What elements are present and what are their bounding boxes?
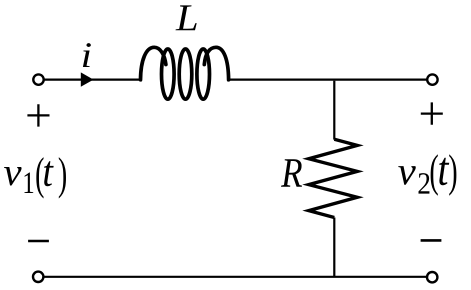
wire top-right segment bbox=[229, 78, 428, 80]
terminal top-left bbox=[33, 74, 43, 84]
label v1(t) bbox=[4, 157, 66, 198]
resistor R top lead wire bbox=[333, 81, 335, 140]
terminal bottom-left bbox=[33, 272, 43, 282]
inductor L loop 2 bbox=[179, 49, 192, 99]
wire top-left segment bbox=[44, 78, 141, 80]
minus sign left bbox=[28, 240, 49, 243]
minus sign right bbox=[421, 239, 442, 242]
wire bottom segment bbox=[43, 276, 427, 278]
inductor L right hump bbox=[204, 47, 228, 80]
label L bbox=[176, 5, 197, 30]
inductor L left hump bbox=[141, 47, 166, 80]
terminal bottom-right bbox=[427, 272, 437, 282]
inductor L loop 3 bbox=[197, 49, 210, 99]
plus sign left bbox=[27, 104, 49, 126]
resistor R bottom lead wire bbox=[333, 218, 335, 277]
terminal top-right bbox=[427, 74, 437, 84]
label v2(t) bbox=[398, 154, 456, 195]
current arrow i bbox=[81, 72, 94, 86]
plus sign right bbox=[421, 102, 443, 124]
label R bbox=[281, 159, 302, 187]
inductor L loop 1 bbox=[162, 49, 175, 99]
label i bbox=[83, 43, 91, 67]
resistor R zigzag bbox=[309, 139, 358, 217]
